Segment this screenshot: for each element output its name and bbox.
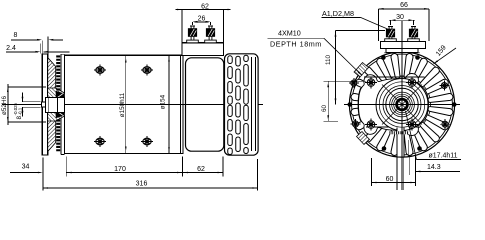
- stud right (end): [412, 27, 415, 42]
- bracket wedge above boss: [56, 91, 64, 98]
- center boss circles: [376, 79, 428, 131]
- band screw 2: [143, 67, 151, 74]
- bearing hub hatched above shaft: [48, 88, 65, 98]
- ribbed end cap: [225, 54, 259, 155]
- svg-text:ø52H6: ø52H6: [1, 96, 8, 115]
- svg-text:8: 8: [14, 32, 18, 39]
- band screw 4: [143, 138, 151, 145]
- flange top edge line: [364, 76, 425, 78]
- svg-text:4XM10: 4XM10: [278, 29, 301, 38]
- flange screw TR: [408, 79, 416, 87]
- hatched lug 10:30: [354, 63, 369, 78]
- rim screw left top: [351, 80, 357, 86]
- vent slot ring: [351, 54, 453, 156]
- band screw 1: [96, 67, 104, 74]
- rim screw right bottom: [442, 121, 448, 127]
- svg-text:60: 60: [321, 105, 328, 113]
- svg-text:316: 316: [136, 181, 148, 188]
- small step under plate: [386, 49, 418, 53]
- stud left (end): [389, 27, 392, 42]
- svg-text:34: 34: [22, 164, 30, 171]
- flange screw BR: [408, 121, 416, 129]
- svg-text:2.4: 2.4: [6, 45, 16, 52]
- terminal stud left (side): [191, 26, 194, 43]
- end view h centerline: [344, 104, 460, 106]
- flange screw BL: [367, 121, 375, 129]
- svg-text:110: 110: [325, 54, 332, 65]
- diagonal centerline cross: [382, 85, 422, 125]
- cap vent slots: [228, 55, 249, 154]
- svg-text:A1,D2,M8: A1,D2,M8: [322, 9, 354, 18]
- svg-text:170: 170: [114, 166, 126, 173]
- boss inner line: [48, 98, 50, 113]
- hatched lug 7:30: [357, 132, 370, 145]
- svg-text:DEPTH 18mm: DEPTH 18mm: [270, 39, 322, 48]
- cooling fin serrated band: [56, 55, 60, 151]
- svg-text:62: 62: [197, 166, 205, 173]
- cap inner edge lines: [251, 57, 253, 151]
- leg ext lines: [396, 157, 398, 190]
- flange left inner arc: [358, 88, 361, 121]
- shaft circle o17.4: [397, 99, 408, 110]
- body right edge inner line: [180, 55, 182, 153]
- body left inner line: [60, 54, 62, 154]
- svg-text:ø154: ø154: [160, 94, 167, 109]
- rim flat top: [384, 52, 420, 54]
- shaft keyway notches: [399, 102, 405, 104]
- terminal box side view: [182, 43, 224, 56]
- svg-text:ø150h11: ø150h11: [119, 92, 126, 117]
- flange bottom edge line: [366, 126, 418, 128]
- gearbox flange plate: [359, 74, 429, 136]
- mounting flange plate: [42, 54, 47, 155]
- svg-text:66: 66: [400, 2, 408, 9]
- drive end bracket cone lower (hatched): [48, 111, 56, 152]
- band screw 3: [96, 138, 104, 145]
- end view outer circle: [349, 52, 454, 157]
- svg-text:60: 60: [386, 176, 394, 183]
- ext lines top left: [40, 44, 42, 54]
- terminal stud right (side): [209, 26, 212, 43]
- shaft stub: [41, 102, 45, 107]
- drive end bracket cone upper (hatched): [48, 58, 56, 99]
- bracket wedge below boss: [56, 111, 64, 118]
- terminal base plate end view: [380, 42, 425, 49]
- dim 8 -0.025/-0.1 rotated: [13, 103, 23, 120]
- bearing boss: [46, 98, 65, 113]
- boss seat hatch band: [389, 131, 409, 134]
- leader 4XM10: [267, 37, 324, 39]
- svg-text:ø17.4h11: ø17.4h11: [429, 153, 458, 160]
- bottom leg: [397, 128, 404, 157]
- rim screw left bottom: [353, 121, 359, 127]
- rim screw right top: [441, 83, 447, 89]
- boss inner line 2: [57, 98, 59, 113]
- flange screw TL: [367, 79, 375, 87]
- commutator end bracket: [186, 58, 224, 151]
- side view centerline: [2, 104, 263, 106]
- leg side line: [407, 140, 409, 157]
- svg-text:14.3: 14.3: [427, 164, 441, 171]
- vent face inner ring: [373, 76, 430, 133]
- end view v centerline: [401, 21, 403, 190]
- rim bolts small: [381, 55, 386, 60]
- motor body yoke: [65, 55, 183, 153]
